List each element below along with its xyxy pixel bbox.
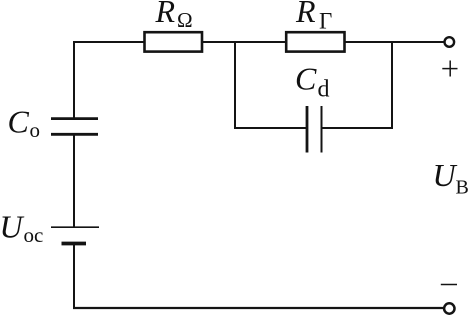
wire C_d right horizontal: [322, 127, 394, 129]
svg-text:R: R: [155, 0, 176, 29]
minus sign: [441, 284, 457, 286]
wire top-left horizontal: [73, 41, 145, 43]
svg-text:o: o: [30, 118, 41, 142]
capacitor C_d left plate: [306, 106, 309, 153]
wire left vertical upper: [73, 41, 75, 118]
terminal bottom-right: [444, 303, 454, 313]
svg-text:U: U: [433, 157, 458, 193]
wire parallel branch right vertical: [391, 41, 393, 129]
wire left vertical lower: [73, 244, 75, 310]
wire C_d left horizontal: [234, 127, 307, 129]
label U_B: [433, 157, 469, 199]
label U_oc: [0, 209, 43, 248]
plus sign: [442, 61, 457, 77]
battery U_oc positive plate: [51, 226, 99, 228]
svg-text:U: U: [0, 209, 25, 245]
capacitor C_o top plate: [51, 117, 98, 120]
svg-text:Γ: Γ: [319, 9, 332, 34]
label C_o: [8, 104, 41, 143]
terminal top-right: [445, 37, 455, 47]
resistor R_omega box: [145, 32, 203, 51]
svg-text:Ω: Ω: [177, 8, 193, 32]
label C_d: [295, 61, 330, 103]
wire parallel branch left vertical: [234, 41, 236, 129]
wire left vertical middle: [73, 134, 75, 227]
svg-text:C: C: [295, 61, 317, 97]
wire bottom horizontal: [73, 307, 444, 309]
svg-text:B: B: [456, 177, 469, 199]
svg-text:oc: oc: [24, 223, 44, 247]
label R_f: [295, 0, 332, 34]
label R_omega: [155, 0, 193, 32]
svg-text:R: R: [295, 0, 316, 29]
capacitor C_d right plate: [321, 106, 323, 153]
svg-text:d: d: [318, 77, 330, 103]
wire between R_omega and R_f: [202, 41, 287, 43]
capacitor C_o bottom plate: [51, 133, 98, 136]
battery U_oc negative plate: [62, 242, 87, 246]
resistor R_f box: [286, 32, 344, 51]
svg-text:C: C: [8, 104, 30, 140]
wire R_f to terminal: [345, 41, 444, 43]
